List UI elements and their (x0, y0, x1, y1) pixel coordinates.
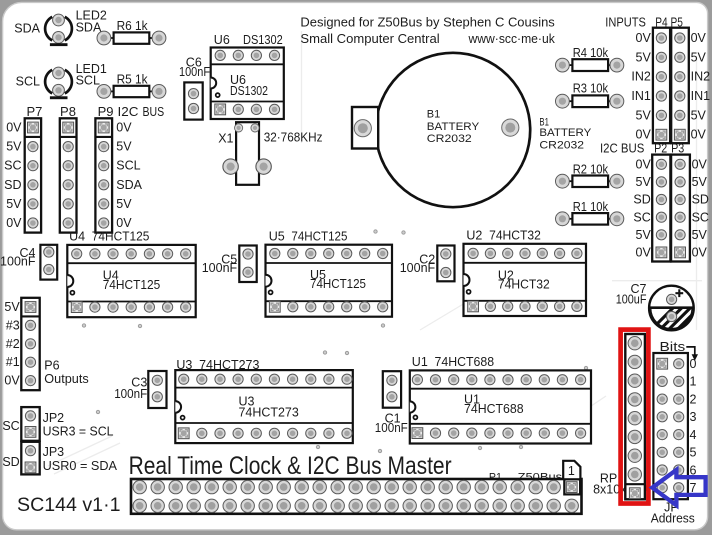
svg-text:0V: 0V (636, 245, 652, 259)
svg-text:IN2: IN2 (631, 70, 651, 84)
svg-text:P2: P2 (654, 141, 667, 156)
svg-text:0V: 0V (116, 216, 132, 230)
svg-text:SC: SC (2, 419, 19, 433)
svg-text:74HCT273: 74HCT273 (239, 406, 299, 420)
Bits label with arrow (660, 340, 699, 361)
svg-text:0V: 0V (636, 157, 652, 171)
svg-text:5V: 5V (116, 140, 132, 154)
svg-text:5V: 5V (116, 197, 132, 211)
svg-text:SCL: SCL (16, 75, 40, 89)
svg-text:www·scc·me·uk: www·scc·me·uk (468, 31, 556, 46)
IC U4 74HCT125 (67, 230, 195, 318)
svg-text:74HCT32: 74HCT32 (498, 278, 550, 292)
svg-text:JP2: JP2 (43, 411, 65, 425)
svg-text:74HCT688: 74HCT688 (464, 402, 524, 416)
svg-text:INPUTS: INPUTS (605, 15, 646, 30)
svg-text:U5: U5 (269, 229, 285, 243)
net labels left of P7 (4, 121, 22, 231)
jumper JP3 (USR0 = SDA) (2, 442, 117, 475)
svg-text:CR2032: CR2032 (539, 139, 584, 151)
header P3 (I2C BUS) (671, 141, 690, 262)
svg-text:DS1302: DS1302 (230, 84, 268, 98)
svg-text:#1: #1 (6, 355, 20, 369)
connector P1 Z50Bus (131, 461, 582, 514)
svg-text:U1: U1 (412, 355, 428, 369)
svg-text:JP3: JP3 (43, 445, 65, 459)
svg-text:0V: 0V (691, 31, 707, 45)
title text (129, 452, 452, 480)
svg-text:CR2032: CR2032 (427, 133, 472, 145)
capacitor C6 100nF (179, 56, 210, 120)
capacitor C5 100nF (202, 246, 257, 283)
svg-text:0V: 0V (116, 121, 132, 135)
capacitor C3 100nF (114, 371, 166, 408)
svg-text:0V: 0V (692, 245, 708, 259)
svg-text:R3 10k: R3 10k (573, 81, 609, 95)
svg-text:100nF: 100nF (400, 261, 436, 275)
header JP (Address) (651, 353, 695, 526)
svg-text:SD: SD (692, 193, 709, 207)
svg-text:SD: SD (633, 193, 650, 207)
svg-text:0: 0 (690, 357, 697, 371)
svg-text:USR3 = SCL: USR3 = SCL (43, 424, 114, 438)
resistor R6 1k (97, 19, 166, 45)
svg-text:32·768KHz: 32·768KHz (264, 131, 323, 145)
svg-text:3: 3 (690, 410, 697, 424)
capacitor C4 100nF (0, 245, 57, 280)
svg-text:SCL: SCL (76, 74, 100, 88)
board name SC144 v1.1 (17, 495, 120, 516)
board note text line 1 (300, 15, 555, 30)
svg-text:5V: 5V (692, 175, 708, 189)
IC U1 74HCT688 (410, 355, 591, 444)
svg-text:0V: 0V (636, 31, 652, 45)
svg-text:1: 1 (568, 464, 575, 478)
svg-text:I2C BUS: I2C BUS (600, 141, 645, 156)
svg-text:#2: #2 (6, 337, 20, 351)
svg-text:5V: 5V (692, 228, 708, 242)
header P9 (I2C BUS) (95, 104, 164, 233)
bit numbers 0-7 (690, 357, 697, 495)
red highlight rectangle (RP) (621, 330, 649, 504)
svg-text:100nF: 100nF (202, 261, 238, 275)
svg-text:74HCT125: 74HCT125 (92, 230, 150, 244)
svg-text:U4: U4 (69, 230, 85, 244)
svg-text:0V: 0V (6, 216, 22, 230)
svg-text:100uF: 100uF (616, 292, 647, 306)
svg-text:SDA: SDA (76, 21, 102, 35)
board note text line 2 (300, 31, 555, 46)
svg-text:0V: 0V (692, 157, 708, 171)
svg-text:SC: SC (4, 159, 21, 173)
svg-text:SDA: SDA (116, 178, 142, 192)
header P2 (I2C BUS) (600, 141, 670, 262)
net labels right of P3 (692, 157, 709, 259)
svg-text:U3: U3 (176, 358, 192, 372)
jumper JP2 (USR3 = SCL) (2, 407, 113, 441)
svg-text:Real Time Clock & I2C Bus Mast: Real Time Clock & I2C Bus Master (129, 452, 452, 480)
header P4 (INPUTS) (605, 15, 670, 144)
svg-text:X1: X1 (218, 132, 233, 146)
crystal X1 32.768KHz (218, 122, 322, 185)
capacitor C1 100nF (375, 371, 408, 435)
svg-text:74HCT32: 74HCT32 (489, 229, 541, 243)
svg-text:DS1302: DS1302 (243, 33, 283, 47)
svg-text:100nF: 100nF (0, 255, 36, 269)
svg-text:R1 10k: R1 10k (573, 200, 609, 214)
svg-text:100nF: 100nF (375, 421, 408, 435)
svg-text:R6 1k: R6 1k (117, 19, 149, 33)
net labels left of P4 (631, 31, 651, 142)
svg-text:IN1: IN1 (691, 89, 711, 103)
svg-text:SC: SC (633, 210, 650, 224)
LED LED2 (SDA) (14, 9, 107, 46)
resistor R4 10k (556, 46, 624, 72)
battery B1 side label (539, 116, 592, 151)
svg-text:IN1: IN1 (631, 89, 651, 103)
svg-text:U6: U6 (214, 33, 230, 47)
net labels left of P6 (4, 300, 20, 388)
resistor R1 10k (556, 200, 624, 226)
svg-text:Address: Address (651, 512, 695, 526)
svg-text:100nF: 100nF (179, 65, 210, 79)
svg-text:BATTERY: BATTERY (427, 121, 480, 133)
svg-text:P7: P7 (26, 104, 42, 119)
svg-text:1: 1 (690, 375, 697, 389)
svg-text:SDA: SDA (14, 21, 40, 35)
svg-text:SD: SD (2, 455, 19, 469)
svg-text:P3: P3 (671, 141, 684, 156)
IC U2 74HCT32 (464, 229, 587, 316)
svg-text:SC144 v1·1: SC144 v1·1 (17, 495, 120, 516)
blue arrow (points at bit 7) (652, 470, 705, 505)
net labels right of P5 (691, 31, 711, 142)
svg-text:P9: P9 (98, 104, 114, 119)
svg-text:0V: 0V (691, 128, 707, 142)
svg-text:5V: 5V (6, 197, 22, 211)
battery B1 CR2032 (352, 53, 530, 207)
svg-text:R4 10k: R4 10k (573, 46, 609, 60)
svg-text:SD: SD (4, 178, 21, 192)
header P7 (25, 104, 43, 233)
capacitor C7 100uF (616, 282, 712, 344)
svg-text:#3: #3 (6, 318, 20, 332)
svg-text:74HCT273: 74HCT273 (199, 358, 259, 372)
svg-text:4: 4 (690, 428, 697, 442)
svg-text:5V: 5V (4, 300, 20, 314)
svg-text:R5 1k: R5 1k (117, 73, 149, 87)
svg-text:0V: 0V (636, 128, 652, 142)
resistor R3 10k (556, 81, 624, 108)
svg-text:SC: SC (692, 210, 709, 224)
svg-text:SCL: SCL (116, 159, 140, 173)
IC U3 74HCT273 (175, 358, 352, 443)
net labels left of P2 (633, 157, 651, 259)
LED LED1 (SCL) (16, 62, 107, 99)
svg-text:5V: 5V (636, 50, 652, 64)
svg-text:5: 5 (690, 446, 697, 460)
svg-text:U2: U2 (466, 229, 482, 243)
svg-text:P6: P6 (44, 359, 59, 373)
svg-text:2: 2 (690, 392, 697, 406)
svg-text:B1: B1 (427, 109, 440, 121)
header P8 (60, 104, 77, 233)
IC U5 74HCT125 (266, 229, 393, 316)
svg-text:USR0 = SDA: USR0 = SDA (43, 459, 118, 473)
svg-text:BATTERY: BATTERY (539, 127, 592, 139)
svg-text:5V: 5V (691, 50, 707, 64)
svg-text:74HCT688: 74HCT688 (435, 355, 495, 369)
resistor R5 1k (97, 73, 166, 99)
svg-text:Designed for Z50Bus by Stephen: Designed for Z50Bus by Stephen C Cousins (300, 15, 555, 30)
trace (faint copper routing) (48, 31, 702, 474)
header P6 (Outputs) (21, 298, 88, 390)
header P5 (INPUTS) (671, 15, 689, 144)
svg-text:IN2: IN2 (691, 70, 711, 84)
IC U6 DS1302 (211, 33, 284, 119)
svg-text:I2C: I2C (118, 104, 139, 119)
via dots (82, 230, 587, 453)
svg-text:R2 10k: R2 10k (573, 162, 609, 176)
svg-text:Bits: Bits (660, 340, 686, 354)
svg-text:Small Computer Central: Small Computer Central (300, 31, 439, 46)
svg-text:5V: 5V (6, 140, 22, 154)
svg-text:5V: 5V (636, 228, 652, 242)
svg-text:BUS: BUS (143, 104, 165, 119)
svg-text:5V: 5V (691, 108, 707, 122)
resistor R2 10k (556, 162, 624, 188)
svg-text:5V: 5V (636, 175, 652, 189)
net labels right of P9 (116, 121, 142, 231)
svg-text:0V: 0V (4, 374, 20, 388)
svg-text:5V: 5V (636, 108, 652, 122)
svg-text:100nF: 100nF (114, 387, 147, 401)
svg-text:Outputs: Outputs (44, 372, 88, 386)
capacitor C2 100nF (400, 246, 455, 282)
svg-text:P8: P8 (60, 104, 76, 119)
svg-text:74HCT125: 74HCT125 (103, 278, 161, 292)
svg-text:0V: 0V (6, 121, 22, 135)
svg-text:74HCT125: 74HCT125 (291, 229, 347, 243)
svg-text:74HCT125: 74HCT125 (310, 277, 366, 291)
resistor network RP 8x10k (593, 334, 648, 499)
